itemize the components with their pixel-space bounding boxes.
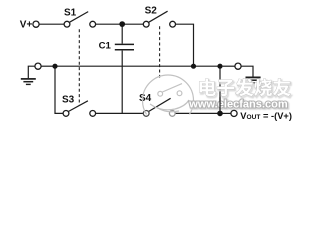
ground symbol right <box>246 76 261 78</box>
ground rail wire C2 node to right terminal <box>223 65 235 67</box>
switch S2 right contact <box>170 21 176 27</box>
svg-text:S1: S1 <box>64 7 77 18</box>
switch S4 right contact <box>169 111 175 117</box>
junction node C1 top <box>119 21 125 27</box>
switch S1 left contact <box>64 21 70 27</box>
capacitor C2 lead lower segment (over watermark) <box>219 97 221 113</box>
wire S2 right to corner and down to ground rail <box>176 24 194 66</box>
wire right terminal to right ground <box>241 66 253 76</box>
switch S3 left contact <box>63 111 69 117</box>
svg-text:S2: S2 <box>145 6 158 17</box>
terminal VOUT <box>231 110 237 116</box>
wire S1 to C1 top node to S2 <box>96 23 144 25</box>
bottom rail wire S4 to VOUT junction <box>175 112 220 114</box>
watermark stamp circle <box>143 75 194 126</box>
ground rail wire to C2 node <box>194 65 221 67</box>
ground symbol left <box>28 66 35 78</box>
switch S4 left contact <box>143 111 149 117</box>
bottom rail wire junction to VOUT terminal <box>220 112 231 114</box>
capacitor C1 plates <box>115 43 134 45</box>
terminal V+ <box>33 21 39 27</box>
capacitor C1 bottom lead crossing ground rail to bottom rail <box>121 51 123 114</box>
watermark text shadow <box>201 80 292 98</box>
switch S1 right contact <box>90 21 96 27</box>
ground terminal right <box>235 63 241 69</box>
svg-text:S4: S4 <box>139 93 152 104</box>
ground terminal left <box>35 63 41 69</box>
switch S1 arm <box>70 12 89 23</box>
junction node C2 top <box>217 64 222 69</box>
wire ground terminal to node A <box>41 65 55 67</box>
switch S2 arm <box>149 11 168 22</box>
capacitor C1 top lead <box>121 24 123 43</box>
switch S3 right contact <box>90 111 96 117</box>
wire V+ terminal to S1 <box>39 23 64 25</box>
svg-text:www.elecfans.com: www.elecfans.com <box>188 98 288 110</box>
svg-text:V+: V+ <box>20 20 33 31</box>
switch S4 arm <box>149 98 171 111</box>
capacitor C2 lead (ground rail node to output rail) <box>219 66 221 113</box>
bottom rail wire S3 to C1 junction to S4 <box>96 112 144 114</box>
ground rail wire node A to S2 down node <box>55 65 194 67</box>
svg-text:S3: S3 <box>62 95 75 106</box>
wire node A down to S3 <box>55 66 63 113</box>
junction node S2/ground rail <box>191 64 196 69</box>
switch S3 arm <box>69 101 88 112</box>
control line S2-S4 (dashed) <box>159 26 161 77</box>
svg-text:C1: C1 <box>99 41 112 52</box>
junction node A (ground rail left) <box>52 64 57 69</box>
watermark text 电子发烧友 <box>200 78 291 96</box>
junction node C2 bottom / VOUT rail <box>217 111 223 117</box>
switch S2 left contact <box>143 21 149 27</box>
control line S1-S3 (dashed) <box>78 29 80 105</box>
